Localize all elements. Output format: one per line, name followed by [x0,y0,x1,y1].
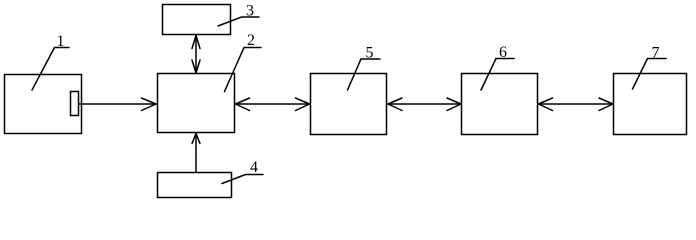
leader line label 6 [481,59,514,91]
block 6 [462,74,538,135]
arrowhead into block5 left [296,98,310,111]
wire block1 to block2 [79,103,157,105]
arrowhead into block2 right [236,98,250,111]
wire block2 to block5 [235,103,310,105]
arrowhead into block7 left [599,98,613,111]
leader line label 5 [348,59,381,90]
arrowhead into block2 left [142,98,157,111]
wire block4 to block2 (vertical) [195,134,197,173]
svg-text:2: 2 [247,32,255,49]
block 2 [158,74,235,133]
block 7 [614,74,687,135]
block 4 [158,173,232,198]
leader line label 4 [222,175,263,184]
block 3 [163,5,231,35]
leader line label 1 [32,48,69,91]
arrowhead into block3 bottom [192,36,200,49]
block 1 [5,75,82,134]
leader line label 7 [633,59,667,90]
arrowhead into block6 right [539,98,553,111]
svg-text:4: 4 [250,159,258,176]
arrowhead into block6 left [447,98,461,111]
leader line label 3 [218,17,259,26]
wire block3 to block2 (vertical) [195,35,197,73]
arrowhead into block2 top [192,60,200,73]
block 5 [311,74,387,135]
wire block5 to block6 [388,103,462,105]
arrowhead into block5 right [388,98,402,111]
wire block6 to block7 [538,103,613,105]
port rectangle on block 1 [71,92,79,116]
arrowhead into block2 bottom [192,134,200,144]
leader line label 2 [225,48,262,92]
